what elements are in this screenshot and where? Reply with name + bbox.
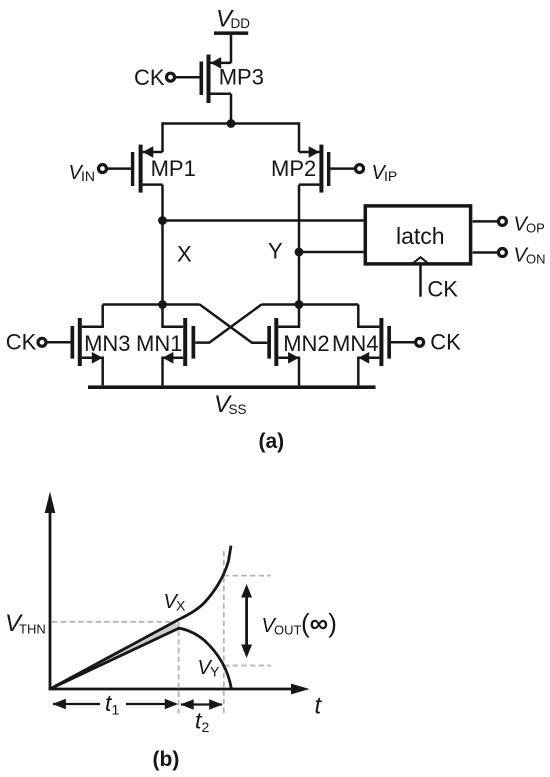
svg-text:CK: CK [6,330,37,355]
graph x-axis [49,684,310,695]
svg-text:MN2: MN2 [283,331,329,356]
wire vIP bubble to MP2 gate [330,167,355,170]
svg-text:OUT: OUT [274,623,302,638]
svg-text:MN1: MN1 [136,331,182,356]
wire CK bubble to MN3 gate [46,341,70,344]
svg-text:X: X [177,242,192,267]
svg-text:ON: ON [526,252,546,267]
wire rail to MP1 source [161,122,164,152]
svg-text:DD: DD [231,16,251,31]
svg-text:THN: THN [19,622,46,637]
latch clock edge triangle [412,257,429,264]
wire MN4 gate to CK bubble [391,341,415,344]
node Y junction [295,248,304,257]
wire node Y down to NMOS drain rail [278,252,299,327]
wire latch CK input [419,265,422,297]
transistor MN3 [71,305,131,386]
svg-text:(b): (b) [153,748,180,771]
wire CK bubble to MP3 gate [176,76,200,79]
dashed vertical at t1+t2 [223,551,225,714]
svg-text:(∞): (∞) [301,608,337,638]
wire cross-couple X to MN2 gate [200,305,268,343]
transistor MN1 [136,318,195,385]
junction Y column / drain rail [295,300,304,309]
svg-text:MP1: MP1 [151,156,196,181]
arrow vOUT(inf) double-headed [241,584,252,658]
svg-text:IP: IP [384,168,397,184]
wire MP2 drain to node Y [298,185,301,252]
arrow t1 double-headed [52,699,178,709]
svg-text:CK: CK [134,65,165,90]
label vIP [372,162,398,184]
wire rail to MP2 source [298,122,301,152]
svg-text:latch: latch [396,223,445,249]
power VDD rail symbol [214,31,248,35]
wire latch output vOP [473,220,498,223]
label vY [198,657,221,680]
svg-text:MN3: MN3 [84,331,130,356]
dashed vertical at t1 [178,622,180,714]
wire source rail MP1-MP2 [163,122,300,125]
gray wedge between vX and vY [51,622,178,688]
node VDD label [216,6,250,33]
label vX [164,591,187,614]
svg-text:X: X [176,598,186,614]
label t1 [105,690,120,718]
wire node X to latch input [163,219,364,222]
terminal CK bubble (MN4 gate) [416,338,424,346]
terminal vIN bubble [99,165,107,173]
terminal vOP bubble [498,217,506,225]
latch U1 [365,206,470,264]
wire MP1 drain to node X [161,185,164,221]
curve vY [50,628,231,689]
transistor MN2 [267,318,329,385]
transistor MP3 [200,55,264,104]
wire MP3 drain to rail node [230,94,233,124]
wire NMOS left drain rail [103,303,200,306]
transistor MP2 [271,145,330,193]
svg-text:IN: IN [81,168,95,184]
wire vIN bubble to MP1 gate [107,167,131,170]
wire node Y to latch input [299,251,364,254]
label vOP [514,214,545,236]
dashed level vY final [224,665,271,667]
label t2 [195,708,210,736]
junction X column / drain rail [158,300,167,309]
terminal vIP bubble [356,165,364,173]
svg-text:MP2: MP2 [271,156,316,181]
wire cross-couple Y to MN1 gate [195,305,261,343]
wire VDD to MP3 source [230,35,233,63]
label VTHN [5,610,46,637]
graph y-axis [45,492,56,690]
wire NMOS right drain rail [262,303,359,306]
svg-text:1: 1 [112,702,120,718]
junction at MP3 drain [227,119,236,128]
curve vX [50,546,231,689]
terminal CK bubble (MN3 gate) [38,338,46,346]
terminal vON bubble [498,249,506,257]
svg-text:Y: Y [268,239,283,264]
arrow t2 double-headed [180,699,222,709]
node X junction [158,216,167,225]
node VSS label [214,391,247,418]
power VSS rail [88,385,376,389]
svg-text:CK: CK [430,330,461,355]
dashed level vX final [224,575,271,577]
wire latch output vON [473,251,498,254]
transistor MN4 [332,305,391,386]
svg-text:OP: OP [526,221,545,236]
wire node X down to NMOS drain rail [163,221,184,327]
svg-text:CK: CK [427,277,458,302]
svg-text:MP3: MP3 [219,65,264,90]
label vIN [69,162,96,184]
transistor MP1 [131,145,196,193]
svg-text:MN4: MN4 [332,331,378,356]
svg-text:SS: SS [229,402,247,417]
svg-text:Y: Y [210,664,220,680]
label vOUT(inf) [262,608,337,638]
label vON [514,245,546,267]
svg-text:(a): (a) [259,430,285,453]
terminal CK bubble (MP3 gate) [167,73,175,81]
dashed level VTHN [52,621,177,623]
svg-text:2: 2 [202,719,210,735]
